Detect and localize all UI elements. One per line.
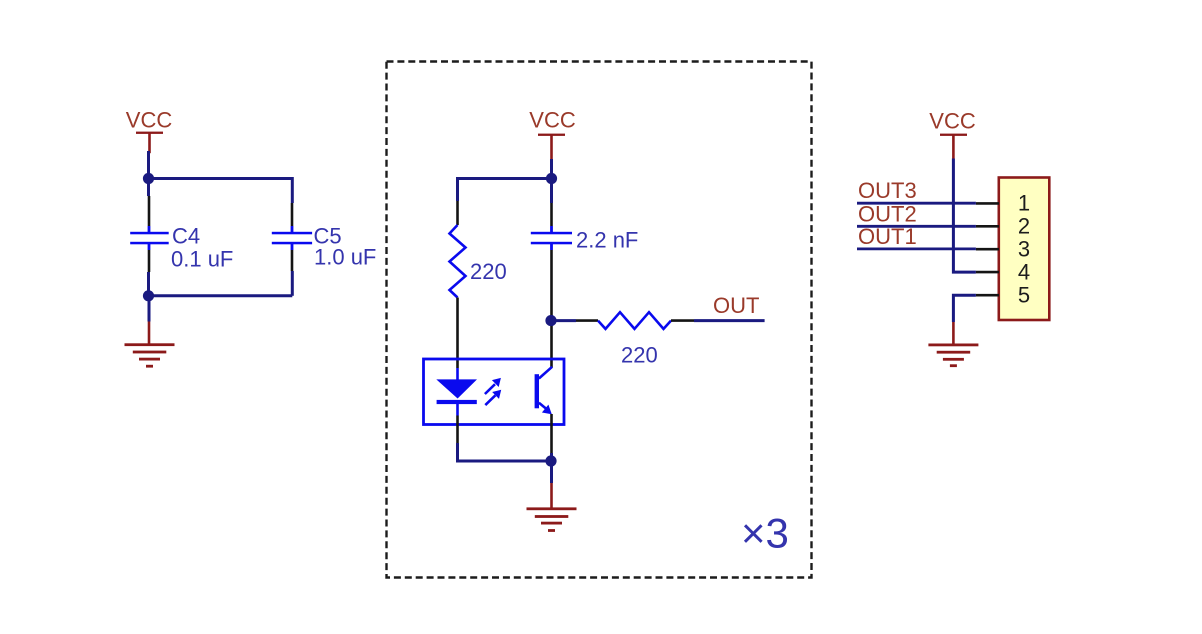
capacitor C4 <box>130 196 169 272</box>
wire left branch down <box>456 177 459 201</box>
wire right branch upper (left section) <box>291 177 294 203</box>
wire VCC to top node (middle) <box>550 159 553 179</box>
pin stub 2 <box>976 225 999 228</box>
power flag VCC (left) <box>126 108 173 154</box>
capacitor C5 <box>272 203 312 271</box>
pin LED cathode below box (black) <box>456 416 459 444</box>
svg-text:3: 3 <box>1018 237 1030 262</box>
wire LED branch to bottom node <box>458 443 552 461</box>
wire top node to left branch <box>458 177 552 180</box>
LED cathode pin inside box <box>456 404 459 416</box>
wire node to collector pin <box>550 315 553 326</box>
svg-text:4: 4 <box>1018 260 1030 285</box>
svg-text:5: 5 <box>1018 283 1030 308</box>
pin stub 3 <box>976 248 999 251</box>
wire left rail lower <box>147 272 150 296</box>
svg-text:OUT2: OUT2 <box>858 201 917 226</box>
pin stub 5 <box>976 294 999 297</box>
wire top rail (left) <box>149 177 293 180</box>
ground (right) <box>928 322 978 367</box>
net OUT3 wire <box>857 202 976 205</box>
svg-text:VCC: VCC <box>529 108 576 133</box>
svg-text:220: 220 <box>621 343 658 368</box>
svg-text:1.0 uF: 1.0 uF <box>314 245 376 270</box>
svg-text:1: 1 <box>1018 191 1030 216</box>
resistor 220 (horizontal) <box>576 312 694 329</box>
svg-text:VCC: VCC <box>126 108 173 133</box>
wire left rail upper <box>147 179 150 197</box>
wire node to ground (left) <box>148 296 151 322</box>
net OUT wire left segment <box>551 319 576 322</box>
power flag VCC (right) <box>929 109 976 159</box>
light arrow 1 <box>485 378 501 394</box>
junction node (left bottom) <box>143 290 154 301</box>
junction node (middle top) <box>546 173 557 184</box>
phototransistor of optocoupler <box>535 367 553 414</box>
junction node (middle bottom) <box>545 455 556 466</box>
wire pin 5 to ground <box>953 295 976 322</box>
wire VCC down to pin 4 <box>953 159 976 273</box>
resistor 220 (vertical) <box>450 201 466 368</box>
junction node (left top) <box>143 173 154 184</box>
net OUT wire right segment <box>694 319 765 322</box>
svg-text:220: 220 <box>470 259 507 284</box>
svg-text:×3: ×3 <box>741 510 789 557</box>
wire emitter to bottom node <box>550 453 553 461</box>
pin stub 1 <box>976 202 999 205</box>
optocoupler box <box>424 359 565 425</box>
svg-text:OUT3: OUT3 <box>858 178 917 203</box>
svg-text:2: 2 <box>1018 214 1030 239</box>
dashed enclosure <box>387 62 812 578</box>
wire VCC to top node (left) <box>147 151 150 179</box>
svg-text:OUT1: OUT1 <box>858 224 917 249</box>
LED anode pin inside box <box>456 368 459 380</box>
ground (middle) <box>527 483 577 532</box>
svg-text:2.2 nF: 2.2 nF <box>576 228 638 253</box>
svg-text:OUT: OUT <box>713 293 759 318</box>
power flag VCC (middle) <box>529 108 576 160</box>
svg-text:VCC: VCC <box>929 109 976 134</box>
net OUT2 wire <box>857 225 976 228</box>
wire bottom rail (left) <box>149 294 293 297</box>
LED of optocoupler <box>436 379 477 404</box>
svg-text:C4: C4 <box>172 223 200 248</box>
pin collector (black) <box>550 326 553 368</box>
wire bottom node to ground (middle) <box>550 461 553 483</box>
pin emitter (black) <box>550 414 553 453</box>
wire right branch lower (left section) <box>291 271 294 296</box>
ground (left) <box>125 322 175 368</box>
junction node (OUT node) <box>545 315 556 326</box>
light arrow 2 <box>485 390 501 405</box>
capacitor 2.2 nF <box>531 179 572 316</box>
svg-text:0.1 uF: 0.1 uF <box>171 247 233 272</box>
pin stub 4 <box>976 271 999 274</box>
connector (yellow header) <box>999 178 1050 321</box>
net OUT1 wire <box>857 247 976 250</box>
